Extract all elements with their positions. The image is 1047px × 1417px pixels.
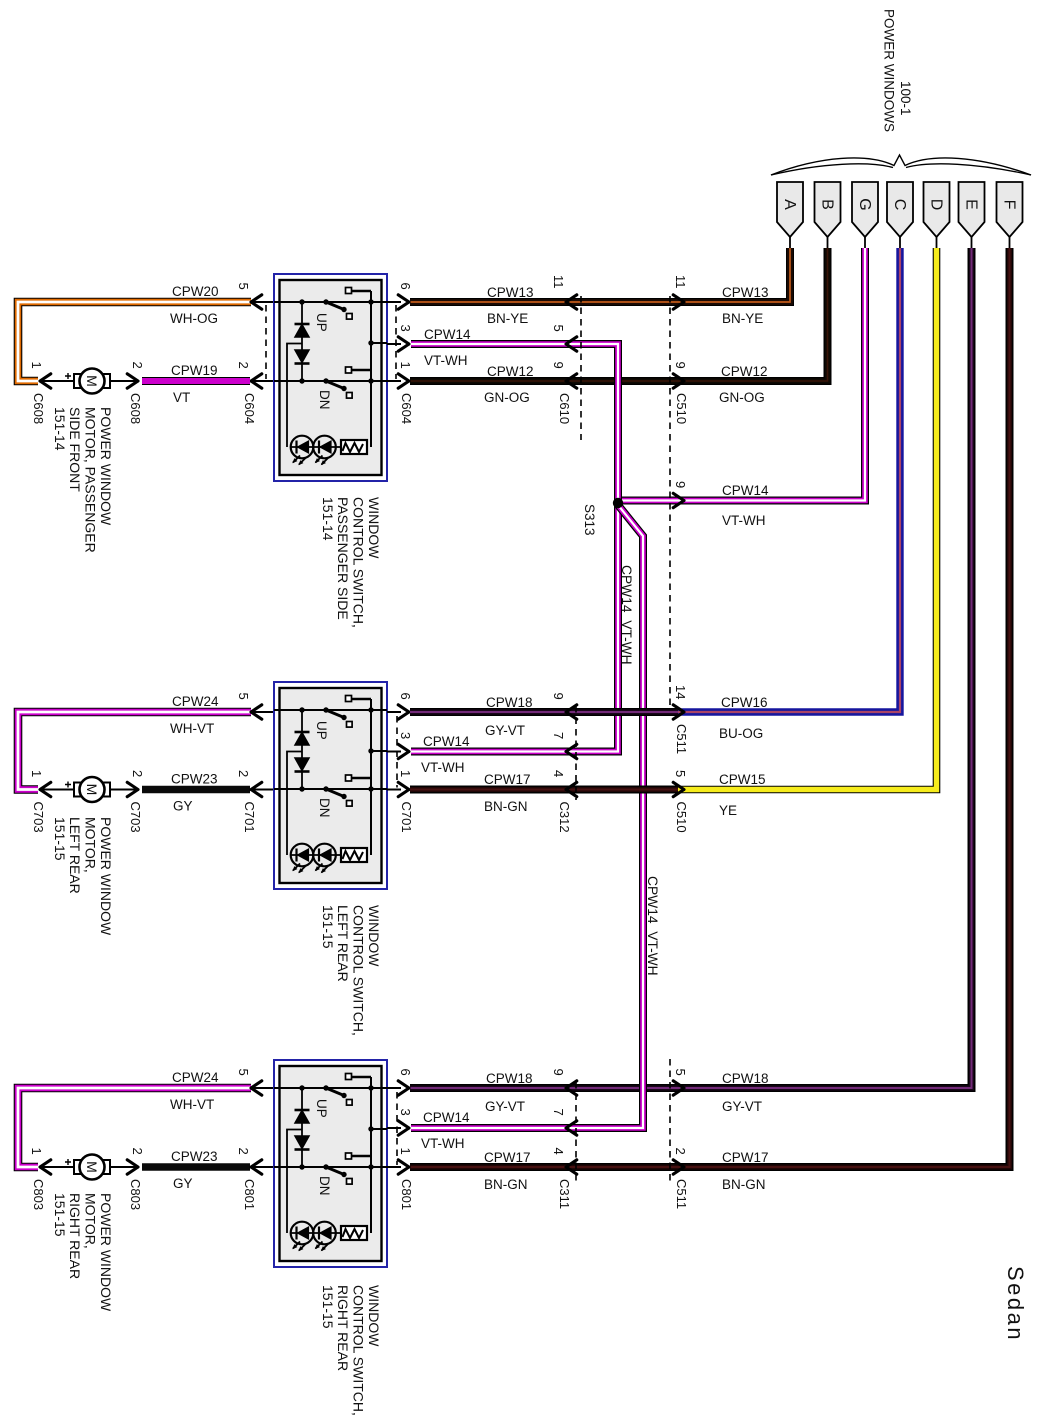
svg-text:POWER WINDOW: POWER WINDOW [98,817,114,936]
connector C312 arrows and numbers [566,705,577,719]
svg-text:CPW20: CPW20 [172,284,219,299]
svg-text:5: 5 [236,1069,251,1076]
power window motor row 1 [40,380,74,382]
svg-text:5: 5 [236,693,251,700]
svg-text:S313: S313 [582,504,597,536]
svg-text:1: 1 [29,770,44,777]
svg-text:GY: GY [173,799,193,814]
svg-text:C608: C608 [31,393,46,424]
switch pin 6 arrow (row 2) [387,711,401,713]
svg-text:LEFT REAR: LEFT REAR [67,817,83,894]
svg-text:151-14: 151-14 [320,497,336,541]
svg-text:BU-OG: BU-OG [719,726,763,741]
svg-text:4: 4 [551,770,566,777]
arrow 9 on CPW14 splice branch [673,493,684,507]
svg-text:CPW24: CPW24 [172,694,219,709]
svg-text:BN-YE: BN-YE [487,311,528,326]
svg-text:9: 9 [551,1069,566,1076]
svg-text:C: C [891,199,908,211]
splice S313 [613,498,623,508]
svg-text:C510: C510 [674,393,689,424]
svg-text:6: 6 [398,283,413,290]
connector C701 dashed line right of switch [396,716,398,788]
svg-text:11: 11 [673,275,688,289]
svg-text:DN: DN [317,798,332,818]
svg-text:4: 4 [551,1148,566,1155]
svg-text:CPW16: CPW16 [721,695,768,710]
svg-text:CPW14: CPW14 [423,734,470,749]
wire CPW20 WH-OG loop from switch pin 5 to motor pin 1 (row 1) [18,302,251,381]
wire CPW18 GY-VT left-rear pin6 to C511 (row 2) [410,708,678,716]
svg-text:C703: C703 [128,802,143,833]
svg-text:VT: VT [173,390,190,405]
svg-text:DN: DN [317,390,332,410]
svg-text:M: M [84,784,100,796]
connector pin G [852,182,878,237]
svg-text:CPW15: CPW15 [719,772,766,787]
svg-text:BN-GN: BN-GN [722,1177,766,1192]
svg-text:5: 5 [236,283,251,290]
svg-text:CPW14: CPW14 [423,1110,470,1125]
svg-text:CPW17: CPW17 [484,1150,531,1165]
svg-text:C511: C511 [674,724,689,754]
svg-text:2: 2 [130,1148,145,1155]
svg-text:CPW23: CPW23 [171,772,218,787]
svg-text:151-14: 151-14 [52,407,68,451]
svg-text:6: 6 [398,693,413,700]
connector C510 arrows and numbers (row 1) [673,295,684,309]
svg-text:C803: C803 [128,1179,143,1210]
wire CPW14 VT-WH row1 pin3 to S313 to left-rear pin3 [411,344,618,752]
svg-text:GN-OG: GN-OG [484,390,530,405]
svg-text:VT-WH: VT-WH [421,760,465,775]
svg-text:151-15: 151-15 [52,817,68,861]
switch pin 1 arrow + C-label (row 1) [387,380,401,382]
svg-text:GY: GY [173,1176,193,1191]
wire CPW23 GY motor pin2 to switch pin2 (row 3) [142,1163,250,1170]
connector C604 dashed line left of switch [265,305,267,379]
svg-text:CPW14 VT-WH: CPW14 VT-WH [619,565,634,665]
wire CPW17 BN-GN from pin F to right-rear switch [410,248,1010,1167]
svg-text:C510: C510 [674,802,689,833]
svg-text:9: 9 [551,362,566,369]
switch pin 6 arrow (row 3) [387,1087,401,1089]
connector C604 dashed line right of switch [395,305,397,379]
svg-text:E: E [963,199,980,210]
svg-text:BN-YE: BN-YE [722,311,763,326]
switch pin 5 arrow (row 2) [251,711,280,713]
wire CPW19 VT motor to switch (row 1 colored) [142,377,250,385]
svg-text:WINDOW: WINDOW [366,1285,382,1347]
svg-text:CPW18: CPW18 [486,695,533,710]
svg-text:5: 5 [551,325,566,332]
svg-text:9: 9 [673,481,688,488]
svg-text:CPW17: CPW17 [722,1150,769,1165]
svg-text:C701: C701 [242,802,257,833]
svg-text:2: 2 [130,362,145,369]
motor pin 1 arrow + C-label (row 2) [40,782,51,796]
svg-text:Sedan: Sedan [1003,1266,1028,1342]
motor pin 1 arrow + C-label (row 1) [40,374,51,388]
svg-text:VT-WH: VT-WH [424,353,468,368]
svg-text:1: 1 [398,1148,413,1155]
connector pin B [815,182,841,237]
switch pin 3 arrow (row 3) [387,1127,401,1129]
svg-text:B: B [819,199,836,210]
svg-text:GY-VT: GY-VT [485,1099,525,1114]
svg-text:2: 2 [130,770,145,777]
wire CPW19 VT motor pin2 to switch pin2 (row 1) [142,377,250,385]
svg-text:WH-VT: WH-VT [170,721,214,736]
svg-text:CPW14: CPW14 [424,327,471,342]
svg-text:RIGHT REAR: RIGHT REAR [335,1285,351,1371]
svg-text:9: 9 [551,693,566,700]
connector C510 dashed line (long, down to C511) [669,296,671,711]
wire CPW12 GN-OG from pin B to switch row 1 [410,248,828,381]
power window motor row 2 [40,789,74,791]
svg-text:3: 3 [398,1109,413,1116]
wire CPW13 BN-YE from pin A to switch row 1 [410,248,790,302]
wire CPW23 GY motor pin2 to switch pin2 (row 2) [142,786,250,793]
svg-text:RIGHT REAR: RIGHT REAR [67,1193,83,1279]
svg-text:C801: C801 [242,1179,257,1210]
svg-text:SIDE FRONT: SIDE FRONT [67,407,83,492]
svg-text:2: 2 [673,1148,688,1155]
svg-text:CONTROL SWITCH,: CONTROL SWITCH, [351,497,367,628]
svg-text:CPW17: CPW17 [484,772,531,787]
svg-text:WH-OG: WH-OG [170,311,218,326]
connector C312 dashed line [575,706,577,800]
svg-text:D: D [928,199,945,211]
wire CPW14 VT-WH from pin G to splice S313 [618,248,865,501]
svg-text:UP: UP [314,313,329,332]
svg-text:CPW19: CPW19 [171,363,218,378]
wire CPW24 WH-VT loop from switch pin 5 to motor pin 1 (row 3) [18,1088,251,1167]
svg-text:1: 1 [398,770,413,777]
svg-text:100-1: 100-1 [898,81,913,116]
svg-text:6: 6 [398,1069,413,1076]
svg-text:C604: C604 [242,393,257,424]
connector C610 arrows and numbers [566,295,577,309]
svg-text:GY-VT: GY-VT [485,723,525,738]
switch pin 2 arrow + C-label (row 1) [251,380,280,382]
motor pin 2 arrow + C-label (row 1) [127,374,138,388]
connector pin D [924,182,950,237]
svg-text:2: 2 [236,1148,251,1155]
svg-text:C703: C703 [31,802,46,833]
motor pin 2 arrow + C-label (row 2) [127,782,138,796]
switch pin 5 arrow (row 3) [251,1087,280,1089]
svg-text:BN-GN: BN-GN [484,799,528,814]
svg-text:CPW24: CPW24 [172,1070,219,1085]
wire CPW15 YE from pin D to connector C510 [678,248,937,790]
connector C511 arrows and numbers (row 3) [673,1081,684,1095]
svg-text:MOTOR,: MOTOR, [83,1193,99,1249]
wire CPW24 WH-VT loop from switch pin 5 to motor pin 1 (row 2) [18,712,251,790]
svg-text:C608: C608 [128,393,143,424]
svg-text:1: 1 [29,1148,44,1155]
svg-text:CPW13: CPW13 [722,285,769,300]
svg-text:A: A [781,199,798,210]
svg-text:POWER WINDOW: POWER WINDOW [98,407,114,526]
switch pin 5 arrow (row 1) [251,301,280,303]
svg-text:2: 2 [236,770,251,777]
svg-text:F: F [1001,200,1018,210]
brace over power-windows connector group [771,155,1031,175]
svg-text:C801: C801 [399,1179,414,1210]
svg-text:POWER WINDOWS: POWER WINDOWS [882,9,897,132]
svg-text:MOTOR, PASSENGER: MOTOR, PASSENGER [83,407,99,553]
svg-text:11: 11 [551,275,566,289]
svg-text:151-15: 151-15 [320,1285,336,1329]
svg-text:WINDOW: WINDOW [366,905,382,967]
svg-text:1: 1 [398,362,413,369]
power window motor row 3 [40,1166,74,1168]
svg-text:C803: C803 [31,1179,46,1210]
svg-text:WH-VT: WH-VT [170,1097,214,1112]
svg-text:C311: C311 [557,1179,572,1209]
svg-text:CPW14: CPW14 [722,483,769,498]
svg-text:C610: C610 [557,393,572,424]
connector pin A [777,182,803,237]
svg-text:7: 7 [551,732,566,739]
wire CPW16 BU-OG from pin C to connector C511 [678,248,900,712]
wire CPW18 GY-VT from pin E to right-rear switch [410,248,972,1088]
window control switch box row 1 [274,274,387,481]
svg-text:UP: UP [314,721,329,740]
svg-text:5: 5 [673,1069,688,1076]
svg-text:2: 2 [236,362,251,369]
svg-text:G: G [856,198,873,210]
svg-text:CPW18: CPW18 [486,1071,533,1086]
svg-text:YE: YE [719,803,737,818]
switch pin 2 arrow + C-label (row 3) [251,1166,280,1168]
svg-text:5: 5 [673,770,688,777]
window control switch box row 3 [274,1060,387,1267]
svg-text:C312: C312 [557,802,572,833]
svg-text:UP: UP [314,1099,329,1118]
connector C511 dashed line (row 3) [669,1059,671,1185]
switch pin 6 arrow (row 1) [387,301,401,303]
switch pin 1 arrow + C-label (row 2) [387,789,401,791]
svg-text:VT-WH: VT-WH [421,1136,465,1151]
svg-text:WINDOW: WINDOW [366,497,382,559]
svg-text:VT-WH: VT-WH [722,513,766,528]
svg-text:9: 9 [673,362,688,369]
svg-text:C511: C511 [674,1179,689,1209]
svg-text:C604: C604 [399,393,414,424]
switch pin 3 arrow (row 2) [387,751,401,753]
svg-text:14: 14 [673,685,688,699]
connector C511 arrow 14 (row 2) [673,705,684,719]
svg-text:CPW13: CPW13 [487,285,534,300]
motor pin 1 arrow + C-label (row 3) [40,1160,51,1174]
svg-text:PASSENGER SIDE: PASSENGER SIDE [335,497,351,620]
switch pin 2 arrow + C-label (row 2) [251,789,280,791]
svg-text:151-15: 151-15 [52,1193,68,1237]
svg-text:C701: C701 [399,802,414,833]
svg-text:1: 1 [29,362,44,369]
svg-text:DN: DN [317,1176,332,1196]
switch pin 3 arrow (row 1) [387,343,401,345]
svg-text:LEFT REAR: LEFT REAR [335,905,351,982]
svg-text:CPW23: CPW23 [171,1149,218,1164]
svg-text:3: 3 [398,325,413,332]
connector C311 arrows and numbers [566,1081,577,1095]
svg-text:3: 3 [398,732,413,739]
switch pin 1 arrow + C-label (row 3) [387,1166,401,1168]
connector C801 dashed line right of switch [396,1092,398,1165]
connector pin F [997,182,1023,237]
svg-text:MOTOR,: MOTOR, [83,817,99,873]
svg-text:CONTROL SWITCH,: CONTROL SWITCH, [351,1285,367,1416]
connector pin C [887,182,913,237]
svg-text:GN-OG: GN-OG [719,390,765,405]
svg-text:M: M [84,1161,100,1173]
wire CPW14 VT-WH from S313 to right-rear pin3 [411,505,643,1128]
svg-text:BN-GN: BN-GN [484,1177,528,1192]
connector C510 arrow 5 (row 2) [673,782,684,796]
svg-text:GY-VT: GY-VT [722,1099,762,1114]
svg-text:CPW18: CPW18 [722,1071,769,1086]
connector pin E [959,182,985,237]
svg-text:M: M [84,375,100,387]
window control switch box row 2 [274,682,387,889]
wire CPW17 BN-GN left-rear pin1 to C510 (row 2) [410,786,678,794]
svg-text:POWER WINDOW: POWER WINDOW [98,1193,114,1312]
svg-text:151-15: 151-15 [320,905,336,949]
motor pin 2 arrow + C-label (row 3) [127,1160,138,1174]
svg-text:CPW12: CPW12 [487,364,534,379]
connector C610 dashed line [580,296,582,440]
svg-text:CPW12: CPW12 [721,364,768,379]
svg-text:CPW14 VT-WH: CPW14 VT-WH [645,876,660,976]
svg-text:CONTROL SWITCH,: CONTROL SWITCH, [351,905,367,1036]
svg-text:7: 7 [551,1109,566,1116]
connector C311 dashed line [575,1082,577,1185]
